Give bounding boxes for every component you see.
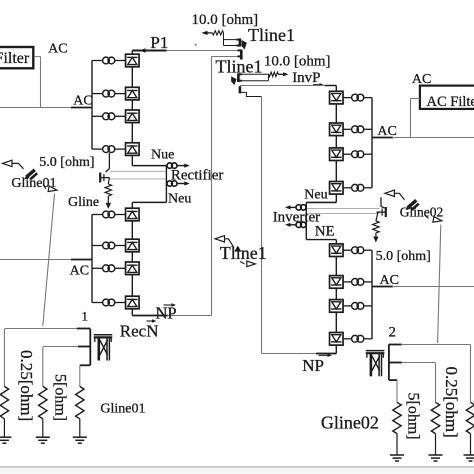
svg-text:5[ohm]: 5[ohm]: [52, 374, 69, 421]
svg-text:0.25[ohm]: 0.25[ohm]: [442, 367, 461, 438]
svg-text:AC: AC: [377, 124, 396, 139]
svg-text:AC: AC: [73, 93, 92, 108]
svg-text:Neu: Neu: [168, 192, 191, 207]
svg-text:Gline: Gline: [68, 195, 99, 210]
svg-text:NP: NP: [156, 303, 177, 322]
svg-text:AC Filter: AC Filter: [0, 50, 30, 67]
svg-text:Gline02: Gline02: [321, 413, 379, 433]
svg-text:NE: NE: [315, 224, 335, 240]
svg-text:Inverter: Inverter: [273, 210, 320, 226]
svg-text:Gline01: Gline01: [100, 402, 145, 417]
svg-text:1: 1: [82, 308, 89, 323]
svg-text:5[ohm]: 5[ohm]: [405, 393, 422, 440]
svg-text:AC: AC: [48, 41, 67, 56]
svg-text:0.25[ohm]: 0.25[ohm]: [17, 350, 36, 421]
svg-text:5.0 [ohm]: 5.0 [ohm]: [39, 155, 94, 170]
svg-text:Rectifier: Rectifier: [171, 168, 223, 184]
svg-text:AC: AC: [380, 273, 399, 288]
svg-text:Gline02: Gline02: [400, 205, 444, 220]
svg-text:InvP: InvP: [292, 70, 320, 86]
svg-text:Nue: Nue: [151, 148, 174, 163]
svg-text:2: 2: [389, 325, 397, 341]
svg-text:AC Filter: AC Filter: [427, 94, 474, 110]
svg-text:Tline1: Tline1: [220, 243, 267, 263]
svg-text:Tline1: Tline1: [248, 25, 295, 45]
svg-text:P1: P1: [150, 33, 168, 52]
svg-text:NP: NP: [302, 356, 324, 375]
svg-text:10.0 [ohm]: 10.0 [ohm]: [264, 53, 331, 69]
svg-text:Neu: Neu: [304, 187, 327, 202]
svg-text:RecN: RecN: [120, 321, 159, 340]
svg-text:AC: AC: [70, 263, 89, 278]
svg-text:5.0 [ohm]: 5.0 [ohm]: [376, 249, 431, 264]
